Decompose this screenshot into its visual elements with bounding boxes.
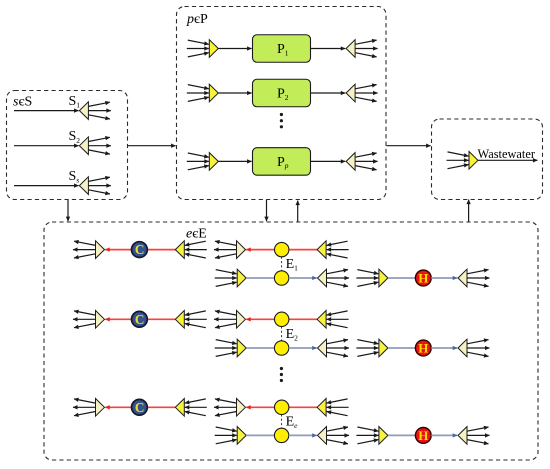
cold wire exchanger E2 to splitter <box>289 347 317 349</box>
mixer into process Pp <box>187 153 219 171</box>
process box p in P <box>177 7 387 200</box>
hot wire exchanger Ee to splitter <box>246 406 282 408</box>
hot wire mixer to cooler C row 1 <box>147 249 175 251</box>
wire wastewater out <box>478 159 538 161</box>
dashed link exchanger E2 <box>281 327 283 341</box>
wire into source splitter Ss <box>14 185 79 187</box>
mixer into exchanger Ee cold side <box>215 427 247 445</box>
source box s in S <box>7 91 128 200</box>
splitter after exchanger Ee hot side <box>214 399 246 417</box>
mixer into process P1 <box>187 40 219 58</box>
cold wire heater H to splitter row 1 <box>431 277 457 279</box>
hot wire mixer to cooler C row 2 <box>147 318 175 320</box>
dashed link exchanger Ee <box>281 415 283 429</box>
splitter after cooler C row 2 <box>73 311 105 329</box>
hot wire exchanger E1 to splitter <box>246 249 282 251</box>
wire process P1 to splitter <box>311 48 346 50</box>
splitter after exchanger Ee cold side <box>318 427 350 445</box>
exchanger box e in E <box>44 222 538 460</box>
splitter after exchanger E1 hot side <box>214 241 246 259</box>
cold wire mixer to heater H row 2 <box>388 347 423 349</box>
wire process Pp to splitter <box>311 160 346 162</box>
cooler C row 2 <box>132 311 148 327</box>
mixer into exchanger E2 hot side <box>317 311 349 329</box>
wire process P2 to splitter <box>311 92 346 94</box>
cold wire mixer to exchanger E2 <box>246 347 281 349</box>
wire mixer to process Pp <box>218 160 251 162</box>
splitter after exchanger E2 hot side <box>214 311 246 329</box>
cold wire mixer to heater H row 1 <box>388 277 423 279</box>
process unit P1 <box>253 35 311 63</box>
hot wire exchanger E2 to splitter <box>246 318 282 320</box>
hot wire mixer to exchanger E2 <box>289 318 317 320</box>
hot wire cooler C to splitter row e <box>105 406 139 408</box>
svg-text:C: C <box>135 312 145 327</box>
heater H row 2 <box>415 340 431 356</box>
splitter after cooler C row 1 <box>73 241 105 259</box>
mixer into heater H row 2 <box>356 339 388 357</box>
exchanger E1 hot node <box>275 242 289 256</box>
heater H row e <box>415 428 431 444</box>
cooler C row 1 <box>132 242 148 258</box>
exchanger Ee cold node <box>274 428 288 442</box>
splitter after process P2 <box>346 84 378 102</box>
wire S box to P box <box>128 145 176 147</box>
heater H row 1 <box>415 270 431 286</box>
splitter after heater H row e <box>458 427 490 445</box>
svg-text:pєP: pєP <box>186 12 208 27</box>
splitter after process Pp <box>346 153 378 171</box>
wastewater box <box>432 119 543 200</box>
splitter Ss <box>79 177 111 195</box>
ellipsis dots in E box <box>280 367 283 382</box>
mixer into exchanger E1 cold side <box>215 269 247 287</box>
hot wire mixer to exchanger E1 <box>289 249 317 251</box>
wire P box to wastewater box <box>387 145 431 147</box>
wire mixer to process P2 <box>218 92 251 94</box>
splitter after exchanger E2 cold side <box>318 339 350 357</box>
wire E box up to wastewater box <box>468 200 470 222</box>
svg-text:eєE: eєE <box>186 227 207 242</box>
splitter after cooler C row e <box>73 399 105 417</box>
cold wire mixer to exchanger Ee <box>246 434 281 436</box>
wire E box up to P box <box>297 201 299 222</box>
hot wire cooler C to splitter row 2 <box>105 318 139 320</box>
mixer wastewater <box>447 152 479 170</box>
mixer into exchanger Ee hot side <box>317 399 349 417</box>
wire S box down to E box <box>67 200 69 221</box>
mixer into heater H row e <box>356 427 388 445</box>
mixer into exchanger E1 hot side <box>317 241 349 259</box>
ellipsis dots in P box <box>280 113 283 129</box>
mixer into cooler C row 1 <box>175 241 207 259</box>
svg-text:sєS: sєS <box>13 95 32 110</box>
svg-text:H: H <box>418 341 428 356</box>
dashed link exchanger E1 <box>281 257 283 271</box>
mixer into heater H row 1 <box>356 269 388 287</box>
svg-text:C: C <box>135 400 145 415</box>
cold wire heater H to splitter row 2 <box>431 347 457 349</box>
wire mixer to process P1 <box>218 48 251 50</box>
mixer into cooler C row 2 <box>175 311 207 329</box>
splitter after exchanger E1 cold side <box>318 269 350 287</box>
svg-text:C: C <box>135 242 145 257</box>
exchanger E1 cold node <box>274 271 288 285</box>
cooler C row e <box>132 399 148 415</box>
splitter S1 <box>79 102 111 120</box>
exchanger E2 cold node <box>274 341 288 355</box>
exchanger E2 hot node <box>275 312 289 326</box>
wire into source splitter S2 <box>14 145 79 147</box>
cold wire exchanger E1 to splitter <box>289 277 317 279</box>
wire into source splitter S1 <box>14 110 79 112</box>
hot wire mixer to cooler C row e <box>147 406 175 408</box>
process unit P2 <box>253 79 311 107</box>
mixer into cooler C row e <box>175 399 207 417</box>
svg-text:Wastewater: Wastewater <box>478 147 536 161</box>
cold wire exchanger Ee to splitter <box>289 434 317 436</box>
hot wire mixer to exchanger Ee <box>289 406 317 408</box>
exchanger Ee hot node <box>275 400 289 414</box>
splitter S2 <box>79 137 111 155</box>
cold wire mixer to exchanger E1 <box>246 277 281 279</box>
mixer into process P2 <box>187 84 219 102</box>
cold wire heater H to splitter row e <box>431 434 457 436</box>
cold wire mixer to heater H row e <box>388 434 423 436</box>
hot wire cooler C to splitter row 1 <box>105 249 139 251</box>
mixer into exchanger E2 cold side <box>215 339 247 357</box>
wire P box down to E box <box>266 200 268 221</box>
splitter after process P1 <box>346 40 378 58</box>
splitter after heater H row 1 <box>458 269 490 287</box>
process unit Pp <box>253 148 311 176</box>
svg-text:H: H <box>418 428 428 443</box>
svg-text:H: H <box>418 271 428 286</box>
splitter after heater H row 2 <box>458 339 490 357</box>
